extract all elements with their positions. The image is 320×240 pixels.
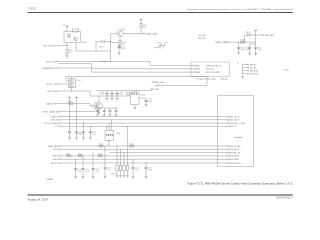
- svg-text:0.1uF: 0.1uF: [107, 170, 111, 172]
- svg-text:1: 1: [65, 30, 66, 32]
- svg-text:BUS_LA: BUS_LA: [206, 68, 214, 71]
- capacitor C119: [75, 131, 78, 134]
- diode CR101: [96, 42, 102, 52]
- wire pullup 2: [75, 99, 77, 130]
- svg-text:U103: U103: [116, 133, 120, 135]
- svg-text:0.1uF: 0.1uF: [121, 48, 125, 50]
- wire USB_RX: [61, 119, 227, 121]
- svg-text:SWB5_RAW: SWB5_RAW: [215, 41, 227, 44]
- small box R107: [127, 92, 130, 95]
- wire BOOT_DATA_BR: [61, 108, 118, 112]
- wire PTT: [61, 125, 227, 127]
- label USB_DP: [55, 103, 56, 104]
- svg-text:0.1uF: 0.1uF: [148, 101, 152, 103]
- wire up to R104: [140, 27, 142, 33]
- capacitor C124: [132, 159, 134, 166]
- wire U100 pin to node: [66, 43, 68, 50]
- svg-text:BK/8 SPKR: BK/8 SPKR: [229, 156, 239, 158]
- wire mntr run: [91, 64, 194, 72]
- svg-text:Q100: Q100: [121, 29, 125, 31]
- capacitor C118: [68, 131, 71, 134]
- svg-text:GND: GND: [155, 89, 160, 91]
- wire SWB5 run: [229, 41, 256, 43]
- svg-text:EMERGENCY: EMERGENCY: [43, 68, 57, 70]
- wire emitter to ground: [98, 109, 100, 112]
- wire emitter: [119, 37, 121, 41]
- svg-text:BOOT_RX: BOOT_RX: [46, 61, 57, 63]
- wire U103 bottom arrow: [108, 140, 110, 142]
- svg-text:BK/6 SB_IO: BK/6 SB_IO: [229, 149, 240, 151]
- capacitor C107: [254, 46, 257, 49]
- svg-text:0.1uF: 0.1uF: [95, 171, 99, 173]
- wire flag to U100: [66, 28, 68, 32]
- pin row BK/1: [194, 65, 195, 66]
- svg-text:5V: 5V: [63, 24, 66, 26]
- svg-text:VIP_OUT: VIP_OUT: [43, 46, 53, 48]
- svg-text:CR102: CR102: [157, 43, 162, 45]
- svg-text:Schematics, Component Location: Schematics, Component Location Diagrams,…: [187, 8, 293, 11]
- capacitor C111: [111, 91, 113, 92]
- svg-text:BOOT_DATA_BR: BOOT_DATA_BR: [43, 110, 60, 113]
- wire collector rail to U102: [99, 95, 131, 97]
- wire R101 to gnd: [66, 53, 68, 55]
- node BASE1 wire: [54, 45, 67, 47]
- svg-text:SW_GND: SW_GND: [250, 74, 259, 76]
- wire top rail: [66, 76, 207, 78]
- wire diode to Q100 vert: [104, 41, 110, 43]
- wire SPI_B: [61, 148, 227, 150]
- svg-text:U100: U100: [82, 42, 87, 44]
- svg-text:NOTE: NOTE: [284, 69, 290, 71]
- capacitor C113: [139, 97, 146, 99]
- wire USB_DP base: [57, 104, 93, 107]
- capacitor C112: [116, 91, 118, 92]
- node SW_B5 label: [263, 34, 264, 35]
- svg-text:10K: 10K: [143, 27, 147, 29]
- resistor R114: [130, 145, 134, 147]
- wire BUTTON: [58, 91, 99, 96]
- capacitor C125: [145, 163, 147, 166]
- wire vertical bus: [242, 64, 244, 78]
- wire flag to rail: [71, 77, 73, 79]
- svg-text:PTT: PTT: [55, 126, 60, 128]
- IC U103: [105, 130, 114, 140]
- pin row BK/3: [194, 71, 195, 72]
- svg-text:SWB5_RAW: SWB5_RAW: [145, 32, 157, 35]
- wire BOOT_RX run: [58, 62, 194, 66]
- svg-text:0.1uF: 0.1uF: [77, 171, 81, 173]
- svg-text:0.1uF: 0.1uF: [100, 94, 104, 96]
- svg-text:USB_RX: USB_RX: [51, 120, 60, 122]
- capacitor C110: [106, 91, 108, 92]
- wire diode to node: [250, 34, 263, 36]
- transistor Q100: [117, 30, 123, 36]
- svg-text:SPKR_EXTNL_IN: SPKR_EXTNL_IN: [206, 65, 222, 67]
- ground: [237, 52, 240, 54]
- connector stub P1: [53, 45, 54, 46]
- node SWB5_CTL stub: [143, 33, 144, 34]
- svg-text:B5_2: B5_2: [199, 38, 203, 40]
- svg-text:B5_1: B5_1: [199, 35, 203, 37]
- svg-text:BUTTON: BUTTON: [47, 91, 56, 93]
- wire USB_TX: [61, 116, 227, 118]
- label row stubs mid: [152, 81, 153, 82]
- diode CR102: [154, 43, 165, 49]
- svg-text:USB_DP: USB_DP: [46, 103, 55, 105]
- power flag SW_B5: [255, 32, 257, 35]
- resistor R105 on USB_DP: [69, 103, 73, 105]
- svg-text:SW_GND: SW_GND: [250, 70, 259, 72]
- svg-text:0.1uF: 0.1uF: [85, 171, 89, 173]
- capacitor C106: [249, 44, 251, 46]
- svg-text:SW_B+: SW_B+: [250, 64, 257, 66]
- wire U103 pins top: [106, 126, 108, 130]
- capacitor C115: [103, 108, 105, 109]
- svg-text:BK/3 BL/IO_CODE: BK/3 BL/IO_CODE: [229, 123, 246, 125]
- svg-text:BOOT/CI MNTR: BOOT/CI MNTR: [206, 72, 220, 74]
- resistor R100: [73, 29, 79, 32]
- svg-text:0.1uF: 0.1uF: [119, 94, 123, 96]
- svg-text:0.1uF: 0.1uF: [135, 170, 139, 172]
- resistor R103: [119, 40, 121, 44]
- svg-text:BOOT_TX: BOOT_TX: [46, 84, 56, 86]
- capacitor C116: [109, 108, 111, 109]
- wire collector: [98, 96, 100, 103]
- wire EMERGENCY run: [58, 67, 194, 70]
- svg-text:RS_RT_AUXIO: RS_RT_AUXIO: [45, 122, 60, 125]
- svg-text:Q102: Q102: [94, 102, 98, 104]
- svg-text:USB_VBUS: USB_VBUS: [48, 146, 60, 148]
- svg-text:USB_TX: USB_TX: [51, 116, 60, 118]
- svg-text:BK/10 GND/U: BK/10 GND/U: [229, 163, 241, 165]
- wire pullup 1: [68, 99, 70, 130]
- power flag: [140, 22, 142, 24]
- svg-text:10K: 10K: [69, 52, 73, 54]
- svg-text:BK/1 CA_LO: BK/1 CA_LO: [229, 115, 240, 118]
- pin SW_GND 2: [243, 73, 248, 75]
- pin SW_B+ 1: [243, 64, 248, 66]
- wire box bottom: [71, 88, 73, 91]
- svg-text:BK/1: BK/1: [196, 65, 200, 67]
- footer rule: [28, 194, 293, 196]
- svg-text:0.1uF: 0.1uF: [148, 170, 152, 172]
- wire cap rail: [96, 90, 152, 92]
- power flag VCC1: [66, 25, 69, 28]
- capacitor C120: [75, 159, 77, 167]
- pin row BK/2: [194, 68, 195, 69]
- pin SW_GND 1: [243, 70, 248, 72]
- IC U100 dual transistor: [64, 32, 81, 43]
- wire row3: [110, 152, 227, 154]
- svg-text:J2: J2: [237, 62, 239, 64]
- resistor R111: [78, 155, 82, 157]
- wire up to diode: [245, 35, 247, 42]
- wire to ground: [119, 44, 121, 47]
- capacitor C123: [104, 146, 106, 166]
- ground: [241, 77, 244, 79]
- wire BOOT_TX: [58, 83, 68, 85]
- svg-text:BK/3: BK/3: [196, 72, 200, 74]
- capacitor C104: [111, 43, 119, 46]
- wire U100 out wrap to Q100: [76, 34, 111, 52]
- svg-text:U102: U102: [141, 95, 145, 97]
- svg-text:Monitor: Monitor: [221, 78, 229, 81]
- svg-text:J1-MAIN: J1-MAIN: [46, 178, 54, 181]
- resistor R104: [140, 23, 142, 27]
- svg-text:SW_B+: SW_B+: [250, 67, 257, 69]
- resistor R108: [241, 41, 245, 43]
- wire RS_RT_AUXIO: [61, 122, 227, 124]
- resistor R110: [67, 155, 71, 157]
- svg-text:0.1uF: 0.1uF: [78, 134, 82, 136]
- wire left pin: [66, 77, 68, 82]
- ground: [66, 56, 69, 58]
- svg-text:KEYPTT: KEYPTT: [51, 163, 60, 165]
- capacitor C122: [92, 153, 94, 168]
- svg-text:GPIO2: GPIO2: [53, 159, 60, 161]
- svg-text:VIP: VIP: [155, 85, 159, 87]
- svg-text:BK/2: BK/2: [196, 69, 200, 71]
- svg-text:Figure 7-172. PMLF4039A Secure: Figure 7-172. PMLF4039A Secure Control-H…: [188, 182, 293, 186]
- svg-text:0.1uF: 0.1uF: [257, 50, 261, 52]
- wire pins top: [131, 91, 133, 94]
- IC U101 dual transistor: [68, 79, 75, 88]
- power flag: [68, 96, 71, 99]
- wire GPIO1: [61, 155, 227, 157]
- svg-text:GPIO1: GPIO1: [53, 156, 60, 158]
- label EMERGENCY: [57, 67, 58, 68]
- svg-text:VR100: VR100: [111, 174, 116, 176]
- svg-text:5V: 5V: [272, 35, 275, 37]
- svg-text:SPKR_SEC: SPKR_SEC: [154, 82, 165, 84]
- svg-text:BK/7 MIC_HI: BK/7 MIC_HI: [229, 152, 241, 154]
- svg-text:Programming Cable: Programming Cable: [197, 78, 217, 81]
- wire collector out: [123, 33, 143, 35]
- wire KEYPTT: [61, 162, 227, 164]
- label gnd mid: [151, 89, 154, 91]
- resistor R106: [93, 105, 97, 107]
- diode CR100: [247, 34, 250, 37]
- resistor R112: [99, 155, 103, 157]
- svg-text:BK/9 SPKR: BK/9 SPKR: [229, 159, 239, 161]
- capacitor C127: [89, 126, 91, 130]
- ground: [119, 47, 122, 49]
- wire rail drop: [206, 77, 208, 86]
- svg-text:August 24, 2007: August 24, 2007: [28, 198, 49, 202]
- svg-text:Handset: Handset: [235, 136, 243, 139]
- svg-text:0.1uF: 0.1uF: [245, 50, 249, 52]
- svg-text:BK/5 CH_SW: BK/5 CH_SW: [229, 146, 241, 148]
- svg-text:7-132: 7-132: [28, 7, 36, 11]
- wire caps branch: [255, 35, 257, 46]
- svg-text:BK/2 CA_HI: BK/2 CA_HI: [229, 119, 240, 122]
- svg-text:0.1uF: 0.1uF: [92, 134, 96, 136]
- wire GPIO2: [61, 158, 227, 160]
- svg-text:CR101: CR101: [99, 47, 104, 49]
- capacitor C126: [82, 123, 84, 131]
- svg-text:5V: 5V: [166, 42, 169, 44]
- power flag: [75, 96, 78, 99]
- label BOOT_RX: [57, 61, 58, 62]
- svg-text:0.1uF: 0.1uF: [240, 50, 244, 52]
- wire spare: [160, 85, 207, 87]
- svg-text:BK/4 PTT: BK/4 PTT: [229, 126, 238, 128]
- resistor R113: [99, 145, 103, 147]
- capacitor C105: [237, 41, 240, 44]
- wire drop to stub node: [105, 51, 110, 61]
- svg-text:6816254H01-A: 6816254H01-A: [276, 197, 293, 200]
- pin SW_B+ 2: [243, 67, 248, 69]
- wire base: [111, 33, 117, 35]
- wire U102 gnd: [134, 105, 136, 108]
- wire USB_VBUS: [61, 145, 227, 147]
- resistor R101: [66, 49, 68, 53]
- capacitor C121: [82, 156, 84, 168]
- diode array VR100: [116, 126, 129, 175]
- svg-text:Q101: Q101: [77, 80, 81, 82]
- svg-text:SPI_B: SPI_B: [53, 149, 60, 151]
- svg-text:CR100: CR100: [245, 32, 250, 34]
- capacitor C117: [115, 108, 117, 109]
- capacitor C114: [97, 108, 99, 109]
- header rule: [28, 12, 293, 14]
